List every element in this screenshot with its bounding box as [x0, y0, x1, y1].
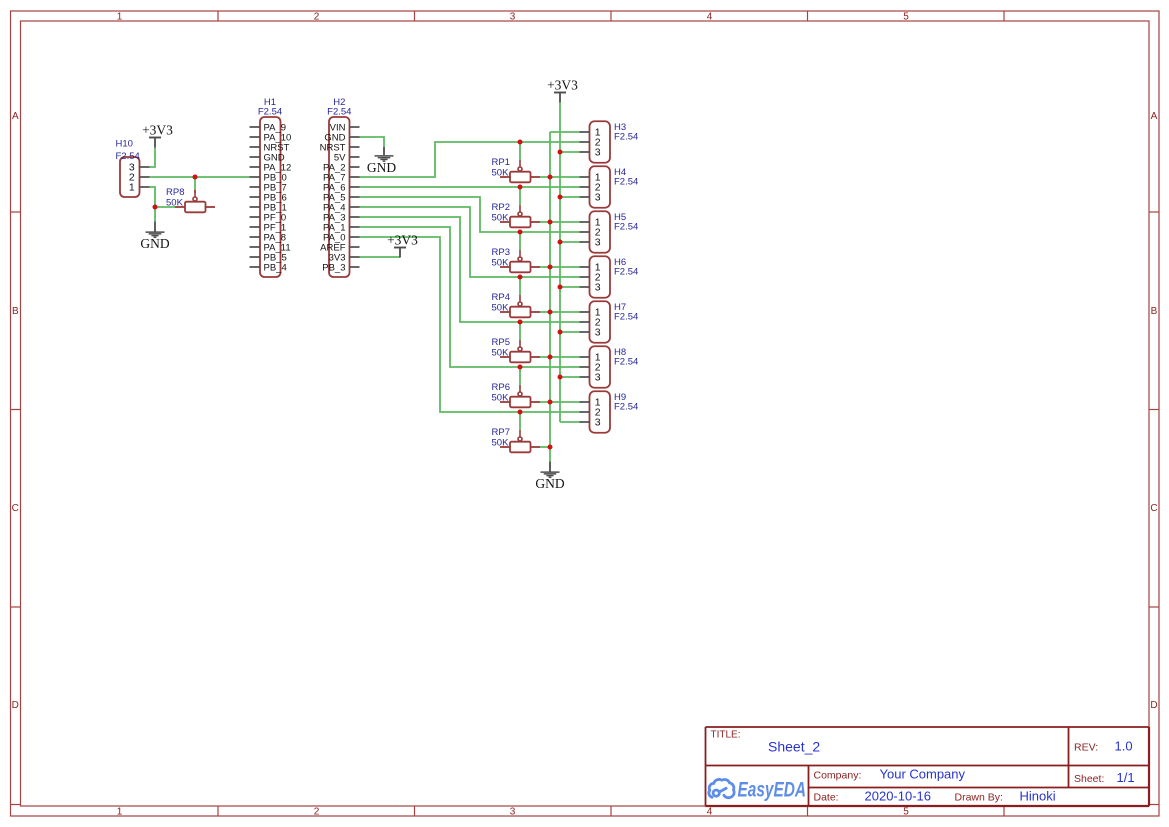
label H10 F2.54 [116, 139, 140, 162]
connector H5 F2.54 [580, 211, 611, 253]
label H2 F2.54 [327, 97, 351, 117]
label H8 F2.54 [614, 347, 638, 368]
connector H7 F2.54 [580, 301, 611, 343]
wire +3V3 rail to H8 pin 3 [560, 376, 580, 378]
svg-text:F2.54: F2.54 [614, 312, 638, 323]
resistor RP1 50K [500, 160, 540, 182]
svg-text:F2.54: F2.54 [614, 177, 638, 188]
svg-text:Drawn By:: Drawn By: [955, 792, 1003, 804]
wire RP2 wiper feed [519, 187, 521, 205]
svg-text:5: 5 [903, 807, 909, 818]
junction RP6 wiper tap [518, 365, 523, 370]
svg-text:F2.54: F2.54 [258, 106, 282, 117]
label RP4 value 50K [492, 292, 510, 314]
svg-text:3: 3 [595, 417, 601, 429]
wire RP4 pin 2 to GND rail and H7 pin 1 [540, 311, 580, 313]
svg-text:REV:: REV: [1074, 742, 1098, 754]
svg-text:F2.54: F2.54 [614, 267, 638, 278]
connector H8 F2.54 [580, 346, 611, 388]
junction +3V3 rail H6 pin 3 [558, 285, 563, 290]
wire +3V3 rail to H4 pin 3 [560, 196, 580, 198]
svg-text:RP2: RP2 [492, 202, 510, 213]
resistor RP8 50K [175, 190, 215, 212]
wire +3V3 rail to H5 pin 3 [560, 241, 580, 243]
label H4 F2.54 [614, 167, 638, 188]
connector H1 F2.54 [250, 117, 292, 277]
connector H2 F2.54 [320, 117, 360, 277]
svg-text:F2.54: F2.54 [614, 222, 638, 233]
svg-text:PB_4: PB_4 [264, 263, 287, 274]
wire H2 3V3 pin [360, 256, 401, 258]
junction +3V3 rail H4 pin 3 [558, 195, 563, 200]
power +3V3 (H2) [387, 232, 418, 257]
EasyEDA logo [709, 778, 806, 802]
connector H9 F2.54 [580, 391, 611, 433]
junction GND node RP8.1 [153, 205, 158, 210]
wire H10 pin 2 to H1 PB_0 [150, 176, 250, 178]
resistor RP7 50K [500, 430, 540, 452]
label RP8 value 50K [166, 187, 184, 209]
svg-text:Company:: Company: [814, 770, 862, 782]
svg-text:50K: 50K [492, 258, 510, 269]
junction GND rail RP3.2 [548, 265, 553, 270]
wire RP3 pin 2 to GND rail and H6 pin 1 [540, 266, 580, 268]
svg-text:Sheet:: Sheet: [1074, 773, 1104, 785]
svg-text:RP3: RP3 [492, 247, 510, 258]
wire +3V3 rail to H7 pin 3 [560, 331, 580, 333]
label RP5 value 50K [492, 337, 510, 359]
svg-text:1: 1 [129, 182, 135, 194]
svg-text:3: 3 [595, 192, 601, 204]
label H9 F2.54 [614, 392, 638, 413]
wire RP2 pin 2 to GND rail and H5 pin 1 [540, 221, 580, 223]
resistor RP4 50K [500, 295, 540, 317]
label H7 F2.54 [614, 302, 638, 323]
junction GND rail RP6.2 [548, 400, 553, 405]
resistor RP3 50K [500, 250, 540, 272]
resistor RP6 50K [500, 385, 540, 407]
svg-text:RP4: RP4 [492, 292, 510, 303]
wire GND node to RP8 pin 1 [155, 206, 175, 208]
svg-text:F2.54: F2.54 [327, 106, 351, 117]
svg-text:1.0: 1.0 [1115, 739, 1133, 754]
connector H3 F2.54 [580, 121, 611, 163]
wire +3V3 to H10 pin 3 [150, 148, 156, 168]
title block texts [711, 730, 1135, 804]
resistor RP2 50K [500, 205, 540, 227]
label RP2 value 50K [492, 202, 510, 224]
svg-text:F2.54: F2.54 [614, 357, 638, 368]
svg-text:50K: 50K [492, 393, 510, 404]
svg-text:50K: 50K [492, 168, 510, 179]
svg-text:GND: GND [140, 236, 169, 251]
wire H2 GND pin [360, 137, 385, 147]
svg-text:B: B [1151, 306, 1158, 317]
wire net PA_1 [360, 227, 580, 367]
label RP3 value 50K [492, 247, 510, 269]
svg-text:50K: 50K [166, 198, 184, 209]
junction +3V3 rail H8 pin 3 [558, 375, 563, 380]
connector H4 F2.54 [580, 166, 611, 208]
junction RP2 wiper tap [518, 185, 523, 190]
wire GND drop [154, 207, 156, 222]
svg-text:Your Company: Your Company [880, 767, 966, 782]
svg-text:RP1: RP1 [492, 157, 510, 168]
svg-text:4: 4 [707, 807, 713, 818]
title block [706, 727, 1150, 806]
svg-text:GND: GND [367, 160, 396, 175]
junction GND rail RP1.2 [548, 175, 553, 180]
svg-text:RP7: RP7 [492, 427, 510, 438]
svg-text:C: C [12, 503, 19, 514]
power +3V3 (H10) [142, 122, 173, 147]
svg-text:3: 3 [595, 327, 601, 339]
svg-text:RP8: RP8 [166, 187, 184, 198]
label H5 F2.54 [614, 212, 638, 233]
wire RP8 wiper [194, 177, 196, 190]
svg-text:50K: 50K [492, 213, 510, 224]
wire net PA_3 [360, 217, 580, 322]
svg-text:1/1: 1/1 [1117, 770, 1135, 785]
wire RP1 pin 2 to GND rail and H4 pin 1 [540, 176, 580, 178]
label H3 F2.54 [614, 122, 638, 143]
svg-text:EasyEDA: EasyEDA [738, 778, 807, 802]
connector H10 F2.54 [120, 157, 150, 197]
svg-text:D: D [1150, 700, 1157, 711]
wire RP6 pin 2 to GND rail and H9 pin 1 [540, 401, 580, 403]
power +3V3 (top) [547, 77, 578, 102]
wire +3V3 rail to H3 pin 3 [560, 151, 580, 153]
junction RP1 wiper tap [518, 140, 523, 145]
svg-text:+3V3: +3V3 [142, 122, 173, 137]
svg-text:50K: 50K [492, 303, 510, 314]
wire H10 pin 1 to GND node [150, 187, 156, 207]
wire RP7 pin 2 to GND rail [540, 446, 550, 448]
wire +3V3 rail [560, 103, 580, 423]
svg-text:Hinoki: Hinoki [1020, 789, 1056, 804]
junction +3V3 rail H7 pin 3 [558, 330, 563, 335]
wire RP3 wiper feed [519, 232, 521, 250]
junction GND rail RP4.2 [548, 310, 553, 315]
svg-text:50K: 50K [492, 438, 510, 449]
svg-text:3: 3 [510, 12, 516, 23]
svg-text:RP6: RP6 [492, 382, 510, 393]
wire net PA_5 [360, 197, 580, 232]
svg-text:1: 1 [117, 12, 123, 23]
label H6 F2.54 [614, 257, 638, 278]
svg-text:GND: GND [535, 476, 564, 491]
junction RP8 wiper tap [193, 175, 198, 180]
svg-text:+3V3: +3V3 [387, 232, 418, 247]
wire RP4 wiper feed [519, 277, 521, 295]
label H1 F2.54 [258, 97, 282, 117]
svg-text:3: 3 [595, 282, 601, 294]
svg-text:3: 3 [595, 372, 601, 384]
svg-text:PB_3: PB_3 [322, 263, 345, 274]
junction RP4 wiper tap [518, 275, 523, 280]
ground GND (RP8) [140, 222, 169, 252]
svg-text:3: 3 [595, 237, 601, 249]
wire net PA_6 [360, 186, 580, 188]
svg-text:2: 2 [314, 807, 320, 818]
svg-text:RP5: RP5 [492, 337, 510, 348]
svg-text:4: 4 [707, 12, 713, 23]
svg-text:F2.54: F2.54 [614, 402, 638, 413]
ground GND (H2) [367, 147, 396, 175]
wire RP7 wiper feed [519, 412, 521, 430]
svg-text:F2.54: F2.54 [116, 151, 140, 162]
junction GND rail RP5.2 [548, 355, 553, 360]
svg-text:C: C [1150, 503, 1157, 514]
junction RP5 wiper tap [518, 320, 523, 325]
svg-text:TITLE:: TITLE: [711, 730, 741, 741]
svg-text:2: 2 [314, 12, 320, 23]
wire GND rail [550, 132, 580, 462]
wire net PA_7 [360, 142, 580, 177]
label RP1 value 50K [492, 157, 510, 179]
label RP7 value 50K [492, 427, 510, 449]
svg-text:2020-10-16: 2020-10-16 [865, 789, 932, 804]
junction +3V3 rail H3 pin 3 [558, 150, 563, 155]
svg-text:A: A [12, 111, 19, 122]
resistor RP5 50K [500, 340, 540, 362]
wire RP5 wiper feed [519, 322, 521, 340]
svg-text:D: D [12, 700, 19, 711]
RP8 wiper lead [194, 190, 196, 193]
wire RP5 pin 2 to GND rail and H8 pin 1 [540, 356, 580, 358]
wire RP6 wiper feed [519, 367, 521, 385]
svg-text:F2.54: F2.54 [614, 132, 638, 143]
wire RP1 wiper feed [519, 142, 521, 160]
wire net PA_4 [360, 207, 580, 277]
svg-text:1: 1 [117, 807, 123, 818]
svg-text:5: 5 [903, 12, 909, 23]
junction GND rail RP2.2 [548, 220, 553, 225]
junction RP3 wiper tap [518, 230, 523, 235]
junction RP7 wiper tap [518, 410, 523, 415]
label RP6 value 50K [492, 382, 510, 404]
svg-text:H10: H10 [116, 139, 133, 150]
ground GND (main) [535, 462, 564, 492]
wire net PA_0 [360, 237, 580, 412]
junction +3V3 rail H5 pin 3 [558, 240, 563, 245]
svg-text:3: 3 [595, 147, 601, 159]
svg-text:A: A [1151, 111, 1158, 122]
svg-text:Date:: Date: [814, 792, 839, 804]
svg-text:+3V3: +3V3 [547, 77, 578, 92]
svg-text:3: 3 [510, 807, 516, 818]
svg-text:B: B [12, 306, 19, 317]
svg-text:50K: 50K [492, 348, 510, 359]
svg-text:Sheet_2: Sheet_2 [768, 739, 820, 755]
connector H6 F2.54 [580, 256, 611, 298]
wire +3V3 rail to H6 pin 3 [560, 286, 580, 288]
junction GND rail RP7.2 [548, 445, 553, 450]
